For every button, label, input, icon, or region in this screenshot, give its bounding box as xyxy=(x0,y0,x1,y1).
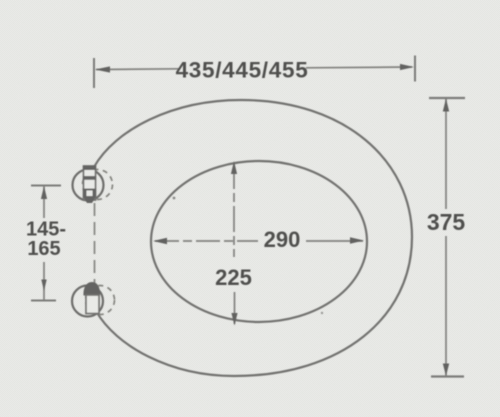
bottom hinge pin head xyxy=(83,282,100,296)
top dimension extension tick left xyxy=(93,58,95,88)
inner aperture ellipse xyxy=(151,161,367,322)
right dimension tick top xyxy=(429,97,465,99)
svg-text:165: 165 xyxy=(27,238,60,260)
right dimension arrow up xyxy=(443,99,449,112)
svg-text:290: 290 xyxy=(264,227,301,252)
aperture width arrow left xyxy=(153,238,167,244)
svg-text:435/445/455: 435/445/455 xyxy=(176,58,309,83)
bottom hinge plate xyxy=(86,295,99,314)
left dimension line xyxy=(43,186,45,218)
aperture width arrow right xyxy=(350,237,364,243)
right dimension tick bottom xyxy=(431,375,464,377)
left dimension arrow down xyxy=(41,280,46,292)
left dimension tick top xyxy=(31,185,61,187)
scan speck xyxy=(173,197,176,200)
top hinge bottom block xyxy=(83,189,96,204)
top dimension arrow right xyxy=(400,64,414,70)
scan speck xyxy=(321,312,323,314)
aperture width dimension line 290 xyxy=(155,240,258,242)
svg-text:225: 225 xyxy=(215,265,252,290)
hinge axis dashed line xyxy=(94,203,96,288)
top hinge mid bar xyxy=(83,176,96,180)
outer seat outline xyxy=(94,100,412,376)
bottom hinge solid circle xyxy=(72,286,103,317)
aperture depth arrow up xyxy=(231,161,237,174)
top dimension extension tick right xyxy=(414,56,416,82)
svg-text:375: 375 xyxy=(427,209,466,235)
left dimension arrow up xyxy=(41,186,47,199)
bottom hinge dashed circle xyxy=(86,286,115,315)
aperture depth arrow down xyxy=(231,313,237,326)
top hinge dashed circle xyxy=(83,170,113,200)
aperture depth dimension line 225 xyxy=(233,163,235,257)
top dimension arrow left xyxy=(95,66,110,72)
right dimension line xyxy=(445,99,447,209)
top hinge solid circle xyxy=(73,170,104,201)
top dimension line xyxy=(96,68,180,71)
left dimension tick bottom xyxy=(31,300,56,302)
right dimension arrow down xyxy=(443,364,449,377)
top hinge pin bar top xyxy=(83,166,96,171)
top hinge plate xyxy=(84,166,96,200)
